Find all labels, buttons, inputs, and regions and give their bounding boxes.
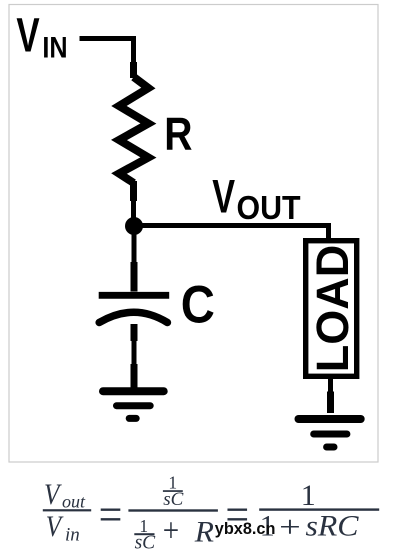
svg-text:R: R bbox=[164, 108, 192, 160]
svg-text:V: V bbox=[212, 170, 235, 223]
svg-text:sRC: sRC bbox=[306, 508, 359, 542]
svg-text:V: V bbox=[16, 8, 39, 62]
svg-text:+: + bbox=[163, 511, 179, 549]
svg-text:1: 1 bbox=[301, 479, 316, 512]
svg-text:R: R bbox=[194, 515, 214, 548]
svg-text:+: + bbox=[279, 510, 301, 543]
svg-text:out: out bbox=[62, 492, 86, 512]
svg-text:V: V bbox=[46, 509, 64, 543]
svg-text:OUT: OUT bbox=[237, 189, 302, 226]
svg-text:sC: sC bbox=[135, 532, 157, 553]
svg-text:in: in bbox=[65, 524, 80, 545]
svg-text:LOAD: LOAD bbox=[307, 245, 358, 373]
svg-text:ybx8.cn: ybx8.cn bbox=[215, 520, 276, 538]
svg-text:V: V bbox=[44, 477, 62, 511]
svg-text:=: = bbox=[99, 488, 123, 541]
svg-text:C: C bbox=[181, 275, 215, 334]
svg-text:IN: IN bbox=[42, 31, 67, 65]
svg-text:sC: sC bbox=[163, 489, 183, 510]
